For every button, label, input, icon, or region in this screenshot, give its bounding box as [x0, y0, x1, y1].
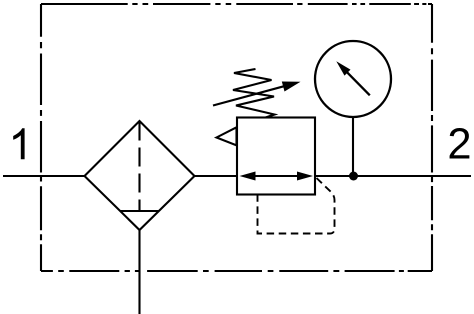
enclosure border right (dash-dot): [431, 4, 433, 271]
regulator flow arrow left head: [240, 172, 256, 181]
wire filter to regulator: [195, 175, 238, 177]
regulator R1 body: [237, 118, 315, 195]
enclosure border bottom (dash-dot): [41, 270, 432, 272]
enclosure border top (dash-dot): [41, 3, 432, 5]
filter element dashed centerline: [138, 122, 140, 212]
svg-text:2: 2: [447, 121, 471, 169]
pilot control dashed line: [258, 178, 335, 234]
filter condensate drain line: [138, 230, 140, 314]
regulator relief vent triangle: [217, 127, 237, 145]
junction node dot: [349, 172, 358, 181]
enclosure border left (dash-dot): [40, 4, 42, 271]
gauge connection stem: [352, 117, 354, 176]
wire port1 to filter: [3, 175, 85, 177]
filter water separator baffle: [120, 210, 159, 212]
regulator spring: [233, 69, 275, 118]
pressure gauge G1 dial: [315, 41, 391, 117]
regulator flow arrow right head: [297, 172, 313, 181]
filter F1 diamond: [85, 121, 195, 230]
regulator adjustment arrow shaft: [213, 86, 286, 106]
wire regulator to port2: [315, 175, 471, 177]
spring arrow head: [282, 82, 301, 92]
needle arrow head: [336, 61, 350, 75]
port label 1: [13, 128, 24, 159]
gauge needle shaft: [345, 70, 370, 95]
regulator flow arrow shaft: [244, 175, 309, 177]
